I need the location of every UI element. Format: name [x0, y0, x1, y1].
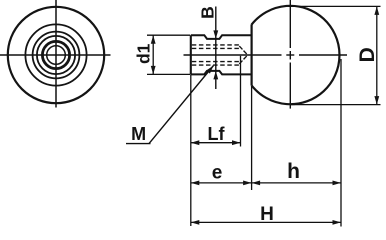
- thread major circle (front view): [42, 41, 69, 68]
- H dimension line: [191, 221, 341, 223]
- H right arrow: [333, 220, 342, 225]
- d1 upper extension line: [147, 34, 190, 36]
- h left arrow: [252, 181, 261, 186]
- Lf left arrow: [191, 140, 200, 145]
- D upper extension line: [289, 5, 381, 7]
- svg-text:H: H: [260, 204, 274, 225]
- ball vertical centerline: [289, 0, 291, 48]
- svg-text:D: D: [356, 47, 379, 62]
- hidden thread line lower outer: [192, 64, 240, 66]
- svg-text:B: B: [197, 6, 217, 19]
- D dimension line: [376, 6, 378, 104]
- svg-text:e: e: [212, 163, 223, 184]
- dimension B lower arrow: [213, 71, 218, 80]
- D lower extension line: [291, 104, 381, 106]
- stud face extension line down: [190, 75, 192, 226]
- boss top edge with groove: [191, 35, 252, 39]
- D upper arrow: [374, 6, 379, 15]
- chord extension line down: [251, 86, 253, 190]
- dimension B leader line: [215, 7, 217, 90]
- hidden thread line lower inner: [192, 61, 240, 63]
- h dimension line: [252, 182, 341, 184]
- Lf right arrow: [232, 140, 241, 145]
- thread end extension line down: [240, 56, 242, 147]
- M leader line: [149, 66, 214, 144]
- Lf dimension line: [191, 142, 241, 144]
- ball outline circle (front view): [8, 7, 104, 103]
- ball flat chord line: [251, 24, 253, 85]
- boss left end face: [190, 35, 192, 74]
- h right arrow: [333, 181, 342, 186]
- left view vertical centerline: [55, 0, 57, 108]
- d1 upper arrow: [151, 35, 156, 44]
- d1 dimension line: [152, 35, 154, 74]
- e left arrow: [191, 181, 200, 186]
- svg-text:Lf: Lf: [208, 124, 226, 144]
- side view horizontal centerline: [184, 54, 282, 56]
- M leader arrow: [206, 66, 213, 74]
- D lower arrow: [374, 96, 379, 105]
- M underline: [126, 143, 151, 145]
- e dimension line: [191, 182, 252, 184]
- left view horizontal centerline: [0, 54, 111, 56]
- hidden thread line upper inner: [192, 47, 240, 49]
- hidden thread line upper outer: [192, 44, 240, 46]
- H left arrow: [191, 220, 200, 225]
- dimension B upper arrow: [213, 30, 218, 39]
- ball outline arc (side view): [252, 6, 340, 104]
- svg-text:d1: d1: [134, 43, 154, 64]
- drill cone upper hidden line: [239, 46, 247, 54]
- groove circle (front view): [37, 36, 75, 74]
- boss circle (front view): [33, 32, 80, 79]
- svg-text:M: M: [131, 124, 146, 144]
- svg-text:h: h: [287, 160, 300, 183]
- drill cone lower hidden line: [239, 56, 247, 64]
- ball right extension line: [340, 59, 342, 227]
- d1 lower arrow: [151, 66, 156, 75]
- thread minor circle (front view): [47, 46, 66, 65]
- ball flat circle (front view): [25, 24, 86, 85]
- boss bottom edge with groove: [191, 71, 252, 75]
- e right arrow: [243, 181, 252, 186]
- d1 lower extension line: [147, 73, 190, 75]
